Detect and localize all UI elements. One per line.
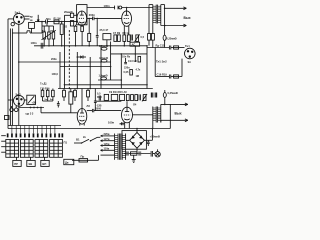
resistor R2 tall <box>60 22 63 46</box>
svg-text:Л4: Л4 <box>133 102 137 106</box>
wire input stub a <box>24 15 29 17</box>
capacitor C18 <box>92 109 93 112</box>
node junction dots grid line <box>41 21 62 23</box>
wire grid line ch2 <box>41 112 77 114</box>
resistor R17 <box>130 70 133 76</box>
resistor filter <box>131 152 137 155</box>
switch P1 matrix group 4 <box>50 140 63 158</box>
capacitor 4.0mkF <box>101 59 107 62</box>
resistor under tube L1 a <box>74 25 77 46</box>
wire tube L3 plate up <box>81 89 83 109</box>
svg-text:АС: АС <box>132 43 136 47</box>
transformer Tr2 output ch2 <box>153 107 161 123</box>
svg-text:Тл1 Зп2: Тл1 Зп2 <box>156 60 167 64</box>
wire output line 2a with arrow <box>161 103 188 107</box>
wire y101.2 ch2 <box>95 100 121 102</box>
connector Zv2 <box>14 95 25 106</box>
wire tie y26 <box>42 25 54 27</box>
svg-text:Зп: Зп <box>188 60 192 64</box>
lamp pilot <box>153 149 160 157</box>
svg-text:0,5: 0,5 <box>141 36 145 39</box>
switch P1 contact row <box>7 133 63 137</box>
capacitor 1.5mkF <box>101 47 107 50</box>
wire mid bus y46.8 <box>147 47 185 49</box>
svg-text:100п: 100п <box>104 4 110 8</box>
wire Zv2 to pot <box>24 99 27 101</box>
wire mid bus y62 <box>19 61 111 63</box>
wire feedback y33 <box>12 31 42 33</box>
svg-text:0,05: 0,05 <box>124 71 129 74</box>
wire stubs bus to matrix <box>12 126 55 134</box>
wire Tr1 primary lead <box>149 5 153 34</box>
capacitor C2 20mkF cathode <box>65 13 77 26</box>
resistor R29 pot <box>142 94 147 101</box>
svg-text:1М: 1М <box>50 31 53 33</box>
svg-text:+50мкФ: +50мкФ <box>150 134 161 138</box>
svg-text:220в: 220в <box>104 132 110 136</box>
svg-text:5м: 5м <box>45 99 48 101</box>
tube L1 shield box <box>77 5 87 25</box>
capacitor 100p node <box>41 43 43 49</box>
svg-text:100,0: 100,0 <box>52 72 59 76</box>
resistor R1 box <box>54 20 59 24</box>
node input terminal arrow <box>37 15 39 22</box>
capacitor filter A <box>126 152 129 155</box>
svg-text:0,25мкФ: 0,25мкФ <box>166 37 177 41</box>
resistor R18 <box>174 46 179 49</box>
svg-text:1,0мкФ: 1,0мкФ <box>99 74 109 78</box>
svg-text:+3В: +3В <box>32 102 37 105</box>
resistor R7 <box>114 35 117 42</box>
capacitor C17 <box>57 101 60 108</box>
wire mid bus y80 <box>98 79 121 81</box>
wire Tr1 secondary leads <box>153 24 161 34</box>
capacitor C23 ch2 <box>94 89 97 111</box>
wire left bus 1 <box>9 29 11 126</box>
capacitor C6 electrolytic box <box>103 34 111 46</box>
resistor R23 <box>63 89 66 102</box>
svg-text:20мкФ: 20мкФ <box>64 10 73 14</box>
capacitor C5 100p <box>115 6 118 10</box>
resistor under tube L1 b <box>81 26 84 46</box>
tube L4 <box>122 107 133 123</box>
tube L1 <box>77 11 87 26</box>
resistor R4 <box>48 26 51 46</box>
wire bridge top lead <box>136 128 138 133</box>
wire mid bus y53.9 <box>111 53 147 55</box>
svg-text:200п: 200п <box>89 13 95 17</box>
svg-text:100п: 100п <box>108 121 114 125</box>
svg-text:-12В: -12В <box>96 105 102 108</box>
svg-text:С16 R19: С16 R19 <box>157 72 168 76</box>
tube L3 <box>77 109 87 125</box>
svg-text:2к: 2к <box>83 135 86 139</box>
wire coupling ch2 y110.6 <box>87 110 121 112</box>
svg-text:25,0 4Г: 25,0 4Г <box>100 28 109 32</box>
wire matrix left stubs <box>1 136 6 153</box>
resistor R5 <box>52 26 55 46</box>
svg-text:Л3: Л3 <box>87 104 91 108</box>
resistor R10 <box>127 35 130 42</box>
svg-text:R13: R13 <box>97 96 102 99</box>
svg-text:Гн1: Гн1 <box>185 44 190 48</box>
svg-text:120в: 120в <box>104 142 110 146</box>
wire drop x42 <box>41 22 43 33</box>
wire bridge left lead <box>126 139 130 141</box>
resistor R25 <box>87 89 90 102</box>
resistor R20 <box>41 89 44 102</box>
wire tap arrowheads <box>101 135 103 151</box>
wire top plate bus y8.3 <box>87 6 153 9</box>
resistor grid leak R6 <box>88 18 91 46</box>
fuse Pr1 <box>72 155 99 162</box>
svg-text:С10 R16: С10 R16 <box>40 87 50 90</box>
potentiometer box ch2 <box>27 95 36 104</box>
svg-text:R1 1М: R1 1М <box>54 17 61 20</box>
svg-text:1М: 1М <box>136 75 139 78</box>
switch P1 matrix group 1 <box>6 140 19 158</box>
wire output line 2b with arrow <box>161 119 188 123</box>
wire left bus 2 <box>11 29 13 126</box>
resistor R3 <box>43 26 46 46</box>
svg-text:С7 R9: С7 R9 <box>113 32 121 35</box>
svg-text:С13 1/8: С13 1/8 <box>128 60 137 63</box>
capacitor C3 200p <box>93 17 94 21</box>
resistor R14 <box>151 34 154 41</box>
wire mid bus y84.8 <box>65 84 148 86</box>
capacitor C7 <box>131 35 132 41</box>
bridge rectifier <box>122 131 146 150</box>
wire box stub <box>31 28 33 33</box>
node motor box <box>64 159 74 164</box>
svg-text:220п: 220п <box>124 67 130 70</box>
svg-text:110в: 110в <box>104 147 110 151</box>
switch box AC <box>130 42 140 46</box>
wire bus y43.8 <box>34 45 147 47</box>
svg-text:4,7к: 4,7к <box>136 69 141 72</box>
wire tube L3 cathode drops <box>80 123 84 125</box>
capacitor C1 50p <box>46 20 48 24</box>
wire filter line <box>124 153 151 155</box>
capacitor 1.0mkF <box>101 77 107 80</box>
capacitor filter B <box>138 152 141 155</box>
svg-text:1,5мкФ: 1,5мкФ <box>99 44 109 48</box>
wire x147 vertical <box>146 46 148 89</box>
svg-text:С9 R14 R15 АС: С9 R14 R15 АС <box>109 91 127 94</box>
svg-text:R8 1к: R8 1к <box>123 32 130 35</box>
wire grid line ch1 <box>35 21 46 23</box>
wire Tr2 primary bottom <box>152 123 154 129</box>
svg-text:R2: R2 <box>64 26 68 29</box>
switch P1 matrix group 3 <box>35 140 48 158</box>
node button box 3 <box>41 157 49 166</box>
capacitor C20 <box>151 93 152 98</box>
wire bridge bottom lead <box>136 148 138 153</box>
svg-text:щр 3 3: щр 3 3 <box>26 112 34 115</box>
svg-text:7з Д1: 7з Д1 <box>40 82 47 86</box>
svg-text:50п: 50п <box>46 17 51 21</box>
svg-text:0,25мкФ: 0,25мкФ <box>168 91 179 95</box>
svg-text:В1: В1 <box>76 138 80 142</box>
wire tie y101 ch2 <box>43 100 53 102</box>
capacitor C22 0.25mkF <box>163 90 166 104</box>
capacitor C8 0.25mkF <box>163 26 166 48</box>
svg-text:4,0мкФ: 4,0мкФ <box>99 56 109 60</box>
wire tube L4 cathode drops <box>125 122 130 129</box>
resistor R9 <box>123 35 126 46</box>
node wiper arrow trio <box>42 30 56 40</box>
wire x41 drop <box>40 108 42 113</box>
resistor R16 <box>138 56 141 62</box>
wire tube L4 plate <box>126 101 128 107</box>
wire output line 1a with arrow <box>161 5 187 10</box>
resistor R21 <box>46 89 49 102</box>
connector jack small circles <box>10 106 18 112</box>
svg-text:пр: пр <box>30 15 34 18</box>
node dots row ch2 <box>30 107 42 109</box>
node button box 2 <box>27 157 35 166</box>
svg-text:Вых: Вых <box>175 111 182 115</box>
node mid dots <box>18 45 148 89</box>
wire x77 vertical <box>76 52 78 89</box>
capacitor C4 <box>96 18 99 46</box>
svg-text:10п Rк: 10п Rк <box>122 56 131 59</box>
svg-text:200к: 200к <box>51 57 57 61</box>
resistor R19 <box>174 75 179 78</box>
capacitor C24 0.5 <box>99 96 100 101</box>
switch V1 <box>74 137 100 144</box>
switch P1 matrix group 2 <box>20 140 33 158</box>
capacitor C10 <box>139 94 140 100</box>
wire x64.5 vertical <box>64 15 66 88</box>
resistor R28 <box>135 95 138 101</box>
svg-text:ЗВ: ЗВ <box>28 162 32 166</box>
connector Gn1 <box>185 48 196 59</box>
transformer Tr1 output ch1 <box>153 5 161 24</box>
wire x60 vertical <box>59 52 61 89</box>
resistor box ch2 row <box>120 94 125 100</box>
resistor R26 <box>126 95 129 101</box>
capacitor C13 <box>124 58 127 64</box>
wire bridge right lead B+ <box>144 128 153 146</box>
resistor R13 <box>148 34 151 46</box>
resistor R22 <box>52 89 55 102</box>
svg-text:ВП: ВП <box>42 162 46 166</box>
wire x135.3 vertical <box>134 46 136 62</box>
capacitor C21 <box>155 93 156 98</box>
wire mid bus y66.5 <box>60 66 111 68</box>
svg-text:Дв: Дв <box>65 160 69 164</box>
node dots bus y43.8 <box>43 45 125 47</box>
svg-text:ПР: ПР <box>14 162 18 166</box>
svg-text:Зв2: Зв2 <box>15 93 21 97</box>
wire x110.6 vertical <box>110 42 112 81</box>
svg-text:5м: 5м <box>50 99 53 101</box>
capacitor C16 <box>169 75 170 79</box>
svg-text:Rд С15: Rд С15 <box>156 43 166 47</box>
svg-text:зв: зв <box>30 19 33 22</box>
wire right border lower <box>169 104 171 128</box>
resistor R27 <box>131 95 134 101</box>
svg-text:Зв1: Зв1 <box>15 10 21 14</box>
capacitor C9 box ch2 row <box>104 94 108 100</box>
wire input stub b <box>24 18 29 20</box>
transformer Tr3 primary taps <box>101 136 115 155</box>
capacitor C15 <box>169 46 170 50</box>
capacitor near lamp <box>151 151 152 157</box>
connector Zv1 <box>8 14 24 26</box>
svg-text:Вых: Вых <box>184 16 191 20</box>
wire drop x47 <box>46 22 48 26</box>
wire left border <box>7 19 9 129</box>
wire dashed mechanical link <box>68 30 70 91</box>
transformer Tr3 power <box>115 134 126 160</box>
ground <box>132 155 136 162</box>
wire mid bus y76.5 <box>155 48 182 77</box>
node small box left border <box>5 116 10 120</box>
capacitor C19 100p <box>120 122 125 125</box>
resistor R8 <box>118 35 121 42</box>
wire bottom bus <box>8 125 61 127</box>
wire left bus 3 <box>18 24 20 125</box>
wire dots row y107.5 <box>19 107 44 109</box>
wire x164.6 drop <box>164 8 166 25</box>
wire x121.3 vertical <box>120 54 122 89</box>
svg-text:127в: 127в <box>104 137 110 141</box>
svg-text:Пр: Пр <box>81 155 85 159</box>
svg-text:П1: П1 <box>64 140 68 144</box>
svg-text:100п: 100п <box>31 41 37 45</box>
wire plate coupling y20 <box>87 17 122 19</box>
wire Tr2 primary lead <box>133 114 153 116</box>
wire x90 vertical <box>89 57 91 89</box>
node button box 1 <box>13 157 21 166</box>
diode D1 <box>77 55 86 58</box>
wire x101 vertical <box>100 46 102 89</box>
wire tube L2 cathode drops <box>124 26 129 35</box>
node input box PR <box>29 22 35 28</box>
resistor R11 pot <box>135 34 140 41</box>
svg-text:5000: 5000 <box>96 108 102 111</box>
wire main bus y88.5 <box>58 88 153 90</box>
wire output line 1b with arrow <box>161 24 187 27</box>
resistor R24 <box>74 89 77 102</box>
tube L2 <box>122 7 132 27</box>
wire bottom border <box>8 128 170 130</box>
